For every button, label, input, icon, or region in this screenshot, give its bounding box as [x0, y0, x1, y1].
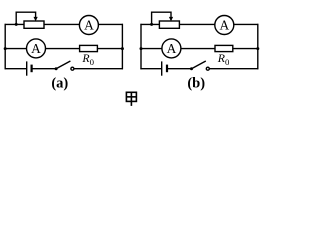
wire: circuit (b) bottom wire right segment — [209, 68, 258, 70]
rheostat R2 (b) slider arrowhead — [169, 17, 173, 22]
svg-text:A: A — [84, 18, 94, 33]
switch S (b) left contact — [190, 67, 193, 70]
ammeter A3 (b) top branch — [215, 16, 234, 35]
wire: circuit (b) top wire — [140, 23, 258, 25]
wire: circuit (a) middle branch wire — [5, 48, 122, 50]
svg-text:A: A — [219, 18, 229, 33]
rheostat R1 (a) slider arrowhead — [34, 17, 38, 22]
wire: circuit (a) top wire — [5, 23, 123, 25]
wire: circuit (a) bottom wire right segment — [74, 68, 123, 70]
junction: (a) middle-right node — [121, 47, 124, 50]
wire: circuit (a) bottom wire left segment — [5, 68, 27, 70]
svg-text:R0: R0 — [81, 51, 94, 67]
ammeter A2 (a) middle branch — [27, 39, 46, 58]
junction: (a) rheostat tap node — [15, 23, 18, 26]
svg-text:R0: R0 — [217, 51, 230, 67]
junction: (b) middle-right node — [256, 47, 259, 50]
wire: circuit (a) left rail — [4, 24, 6, 70]
wire: circuit (b) bottom wire battery-to-switch segment — [167, 68, 192, 70]
resistor R0 (b) body — [215, 45, 233, 51]
svg-text:(a): (a) — [51, 75, 68, 91]
junction: (b) rheostat tap node — [150, 23, 153, 26]
switch S (b) right contact — [206, 67, 209, 70]
switch S (b) lever — [192, 61, 206, 69]
wire: circuit (b) bottom wire left segment — [140, 68, 161, 70]
rheostat R1 (a) slider tap wire — [16, 12, 35, 24]
junction: (b) middle-left node — [140, 47, 143, 50]
switch S (a) right contact — [71, 67, 74, 70]
rheostat R2 (b) body — [159, 21, 179, 28]
ammeter A1 (a) top branch — [79, 16, 98, 35]
wire: circuit (a) right rail — [121, 24, 123, 70]
ammeter A4 (b) middle branch — [162, 39, 181, 58]
battery (a) negative short plate — [31, 65, 33, 73]
label 甲 (figure caption, drawn as strokes) — [126, 92, 136, 106]
wire: circuit (b) left rail — [140, 24, 142, 70]
battery (b) negative short plate — [166, 65, 168, 73]
battery (b) positive long plate — [161, 61, 163, 75]
svg-text:A: A — [31, 41, 41, 56]
wire: circuit (b) right rail — [257, 24, 259, 70]
switch S (a) left contact — [55, 67, 58, 70]
svg-text:(b): (b) — [187, 75, 205, 91]
wire: circuit (b) middle branch wire — [141, 48, 258, 50]
battery (a) positive long plate — [26, 61, 28, 75]
rheostat R1 (a) body — [24, 21, 44, 28]
rheostat R2 (b) slider tap wire — [152, 12, 171, 24]
svg-text:A: A — [167, 41, 177, 56]
switch S (a) lever — [56, 61, 70, 69]
resistor R0 (a) body — [80, 45, 98, 51]
wire: circuit (a) bottom wire battery-to-switch segment — [32, 68, 56, 70]
junction: (a) middle-left node — [4, 47, 7, 50]
